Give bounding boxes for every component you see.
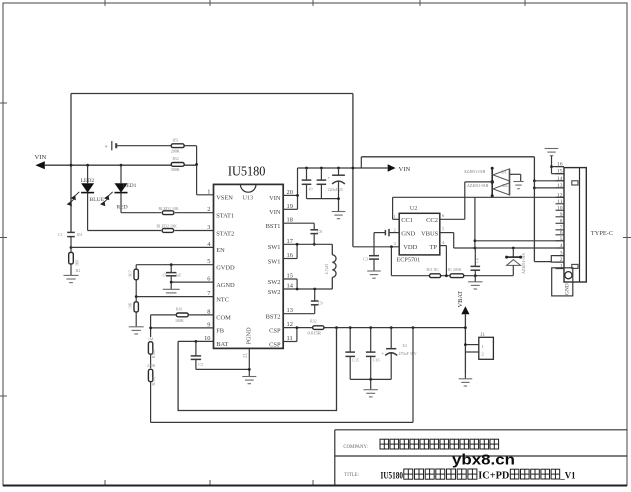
svg-text:11: 11 [557,199,563,205]
net flag VIN (left) [35,154,47,169]
svg-text:CSP: CSP [269,341,281,348]
wire C5 to PGND [196,368,249,370]
svg-text:CC2: CC2 [426,217,438,224]
wire BAT pin10 [178,340,213,342]
svg-text:4: 4 [442,240,445,245]
svg-text:VBAT: VBAT [457,291,464,308]
svg-text:VIN: VIN [35,154,47,161]
node E2 tap [390,326,393,329]
svg-text:R51: R51 [173,139,179,143]
company name 深圳市永阜康科技有限公司 [380,439,499,449]
frame zone ticks left [0,103,7,396]
ground (PGND) [242,377,256,384]
svg-text:_V1: _V1 [559,471,575,482]
title text IU5180 buck-boost charger [381,469,576,482]
svg-text:BAT: BAT [216,341,228,348]
wire VSEN pin1 [197,194,214,196]
svg-text:5: 5 [442,227,445,232]
svg-text:AZ4051-01B: AZ4051-01B [464,169,486,174]
wire join to gnd [370,379,372,389]
wire CSP cap join [350,378,391,381]
svg-text:C15: C15 [352,358,359,363]
IU5180 left pin names and numbers [204,188,235,348]
svg-text:+: + [327,175,330,180]
ground (EN RC) [64,275,79,282]
title block frame [3,430,627,486]
wire CC branch rail [475,240,564,242]
wire VIN rail left [45,164,197,166]
node VIN-loop junction [70,164,73,167]
svg-text:R32: R32 [310,319,317,324]
svg-text:VSEN: VSEN [216,195,233,202]
node C15 tap [349,326,352,329]
LED LED2 (BLUE) [67,165,105,230]
svg-text:CC1: CC1 [401,217,413,224]
LED LED1 (RED) [100,165,137,213]
wire pin13 link [534,187,564,189]
capacitor C15 [345,328,359,380]
wire CC1 route [393,197,400,219]
svg-text:GND: GND [565,283,571,295]
wire VIN top rail [361,156,534,158]
svg-text:RED: RED [117,205,128,211]
svg-text:300K: 300K [171,167,180,172]
svg-text:FB: FB [216,328,224,335]
TypeC pin stubs and numbers [556,162,565,270]
svg-text:21: 21 [244,353,249,359]
wire C4 gnd stub [474,276,476,282]
wire VBUS route [440,233,454,248]
wire STAT1 net RED [117,205,162,213]
svg-text:R1 200K: R1 200K [448,268,462,272]
IC U2 ECP5701 body [397,205,440,264]
capacitor C6 [163,265,182,290]
svg-text:R102: R102 [152,350,156,358]
svg-text:R103: R103 [152,377,156,385]
svg-text:R2: R2 [76,269,81,273]
svg-text:U2: U2 [410,205,418,212]
ground (C3) [367,271,381,278]
svg-text:COM: COM [216,315,231,322]
svg-text:4: 4 [560,243,563,249]
connector J1 [464,333,493,360]
svg-text:+: + [104,144,108,151]
svg-text:10K: 10K [129,302,133,309]
resistor R10 100K (COM) [175,308,188,323]
resistor R51 200K [171,139,184,154]
svg-text:5: 5 [560,236,563,242]
wire GVDD pin5 [136,264,213,266]
svg-text:TITLE:: TITLE: [344,473,359,478]
svg-text:ECP5701: ECP5701 [397,257,421,264]
capacitor C8 (BST1) [283,223,322,246]
svg-text:VBUS: VBUS [421,230,439,237]
capacitor E2 electrolytic 470uF/35V [381,328,416,380]
wire RLED2 to STAT2 [175,230,214,232]
wire C1 to EN node [70,237,72,248]
IU5180 pin 21 PGND label [244,327,253,358]
node loop junction [352,167,355,170]
svg-text:2: 2 [560,257,563,263]
node bottom-rail tap [412,326,415,329]
svg-text:C5: C5 [198,362,203,367]
svg-text:IU5180: IU5180 [381,471,404,482]
diode D3 AZ4051-016 [505,248,526,276]
IC U13 IU5180 body [214,164,284,349]
svg-text:240K: 240K [147,364,156,368]
svg-text:U13: U13 [243,195,254,202]
wire SW1 pins 17-16 [283,243,332,259]
wire D pair to gnd [510,174,521,181]
svg-text:LED1: LED1 [123,183,137,189]
wire SW2 pins 15-14 [283,279,332,290]
svg-text:C1: C1 [58,233,63,237]
wire CC1 rail [393,196,564,198]
svg-text:CSP: CSP [269,327,281,334]
ground (AGND) [163,289,180,296]
svg-text:1M: 1M [148,338,154,342]
resistor RLED1 10K [159,206,179,215]
node LED1 tap [120,164,123,167]
wire VDD rail [353,245,399,248]
inductor L1 4.7uH [324,244,336,289]
resistor R17 (GVDD-NTC) [129,265,139,297]
wire R2 to ground [71,264,80,275]
svg-text:BLUE: BLUE [90,197,105,203]
wire AGND pin6 [170,281,214,284]
wire TP route [440,246,447,276]
svg-text:6: 6 [442,213,445,218]
wire VIN jog [360,157,362,168]
wire resistor row [391,274,513,277]
wire R51 to node [185,145,197,147]
ground (C4) [468,282,482,289]
frame zone ticks top [105,0,525,6]
watermark ybx8.cn [452,453,515,469]
svg-text:2: 2 [207,206,210,213]
ground (NTC) [129,327,144,334]
capacitor C5 [191,341,203,369]
svg-text:BST1: BST1 [266,223,281,230]
wire CSP rail [324,327,465,329]
svg-text:STAT1: STAT1 [216,213,234,220]
svg-text:100K: 100K [175,318,184,323]
svg-text:C9: C9 [318,301,323,306]
resistor RLED2 10K [157,223,177,232]
wire EN pin4 [71,246,214,248]
svg-text:8: 8 [560,218,563,224]
svg-text:PGND: PGND [246,327,253,345]
svg-text:4.7uH: 4.7uH [324,264,329,274]
node cap E1 tap [337,167,340,170]
resistor R103 [147,364,156,386]
svg-text:+: + [381,351,384,356]
wire CSP pins 12-11 [283,326,312,341]
svg-text:C16: C16 [373,358,380,363]
wire R102-R103 [150,354,152,368]
svg-text:C3: C3 [363,256,368,261]
wire gnd to pins 16-15 [550,156,564,174]
wire STAT2 from LED2 [88,230,162,232]
svg-text:200K: 200K [171,149,180,154]
svg-text:104: 104 [77,233,83,237]
capacitor C3 [363,256,379,271]
wire RLED1 to STAT1 [175,212,214,214]
svg-text:SW2: SW2 [268,289,281,296]
svg-text:14: 14 [557,176,563,182]
ground (CSP caps) [364,390,378,397]
svg-text:1: 1 [394,214,397,219]
node C5 tap [195,340,198,343]
wire bottom sense rail [151,421,413,423]
U2 pin names [394,213,445,251]
node cap C11 tap [320,167,323,170]
wire R103 to rail [150,382,152,423]
svg-text:0.015R: 0.015R [308,331,322,336]
svg-text:220uF/25: 220uF/25 [328,187,343,192]
resistor R32 0.015R [308,319,325,336]
node C6 tap [170,263,173,266]
svg-text:AZ4051-01B: AZ4051-01B [467,183,489,188]
svg-text:15: 15 [557,169,563,175]
svg-text:SW1: SW1 [268,258,281,265]
wire FB pin9 [149,327,213,330]
resistor R1 200K [448,268,464,277]
svg-text:16: 16 [557,162,563,168]
svg-text:C8: C8 [318,229,323,234]
wire loop right (VIN net vertical) [352,94,354,247]
resistor R2 10K (EN-GND) [69,248,79,267]
svg-text:2: 2 [394,227,397,232]
svg-text:10: 10 [557,205,563,211]
wire bus to pins 2-3 [534,255,564,263]
capacitor C16 [366,328,380,380]
capacitor C9 (BST2) [311,288,323,314]
svg-text:TYPE-C: TYPE-C [591,230,613,237]
capacitor C1 (VIN-EN) [58,232,82,237]
svg-text:LED2: LED2 [81,178,95,184]
svg-text:AGND: AGND [216,282,235,289]
svg-text:R11 NC: R11 NC [427,268,440,272]
wire CC branch vertical [474,197,477,248]
svg-text:GND: GND [401,230,415,237]
connector J2 TYPE-C body [564,168,613,282]
svg-text:ybx8.cn: ybx8.cn [452,453,515,469]
node EN junction [70,246,73,249]
svg-text:12: 12 [557,192,563,198]
svg-text:IC+PD: IC+PD [478,471,509,482]
wire rail drop [412,328,414,423]
svg-text:NTC: NTC [216,296,229,303]
svg-text:10: 10 [309,187,313,192]
svg-text:VIN: VIN [399,166,411,173]
wire NTC pin7 [135,295,214,298]
wire COM to FB divider [151,315,176,337]
svg-text:D2: D2 [502,183,507,188]
svg-text:EN: EN [216,247,225,254]
capacitor C10 [302,168,313,199]
svg-text:3: 3 [394,241,397,246]
resistor R102 [148,338,156,359]
wire loop top [71,93,353,95]
svg-text:RLED2 10K: RLED2 10K [157,223,177,228]
svg-text:C6: C6 [163,274,168,278]
svg-text:13: 13 [557,183,563,189]
ground (VIN caps) [332,212,346,219]
svg-text:VDD: VDD [403,244,417,251]
node divider-VIN junction [195,163,198,166]
capacitor C4 (VBUS) [471,248,481,276]
frame zone tick right [623,237,631,239]
title block COMPANY label [343,445,367,450]
title block TITLE label [344,473,359,478]
capacitor C11 [317,168,327,199]
TypeC shell GND box [552,268,573,296]
resistor NTC thermistor [129,297,139,327]
node C16 tap [369,326,372,329]
svg-text:1: 1 [560,264,563,270]
svg-text:J1: J1 [481,333,486,338]
node R32 out [335,326,338,329]
svg-text:RLED1 10K: RLED1 10K [159,206,179,211]
net flag VIN (right) [388,164,411,173]
svg-text:TP: TP [429,244,437,251]
svg-text:GVDD: GVDD [216,265,235,272]
wire pin14 link [534,180,564,182]
svg-text:C4: C4 [475,258,480,263]
wire COM pin8 [189,314,214,316]
svg-text:E2: E2 [403,343,407,348]
svg-text:1: 1 [207,188,210,195]
node cap C10 tap [305,167,308,170]
wire VIN pins 20-19 [283,168,299,209]
svg-text:SW2: SW2 [268,279,281,286]
battery B1 (+) [104,141,171,151]
wire CC2 to D2 [440,182,492,219]
svg-text:D1: D1 [501,170,506,175]
wire VDD drop [390,247,392,276]
wire BST2 pin13 [283,313,315,315]
wire VBAT to gnd [464,374,466,378]
svg-text:R52: R52 [173,157,179,161]
ground (TypeC top) [545,149,559,156]
capacitor E1 electrolytic 220uF/25V [327,168,344,211]
svg-text:VIN: VIN [269,209,281,216]
ground (ESD) [513,182,523,189]
svg-text:IU5180: IU5180 [228,164,266,179]
svg-text:1uF: 1uF [176,274,182,278]
node LED2 tap [86,164,89,167]
svg-text:R10: R10 [176,308,182,312]
frame zone ticks bottom [105,480,313,486]
wire VIN rail right [298,167,388,169]
wire VSEN divider vertical [196,146,198,195]
svg-text:VIN: VIN [269,195,281,202]
wire PGND pin21 [248,348,251,376]
svg-text:STAT2: STAT2 [216,230,234,237]
wire cap join [307,197,340,200]
svg-text:3: 3 [560,251,563,257]
svg-text:R17: R17 [129,270,133,276]
svg-text:10K: 10K [75,260,79,267]
wire U2 gnd drop [373,233,375,256]
svg-text:AZ4051-016: AZ4051-016 [521,253,526,274]
IU5180 right pin names and numbers [266,189,294,348]
svg-text:2: 2 [482,351,484,356]
svg-text:9: 9 [560,212,563,218]
ground (VBAT) [459,379,473,386]
svg-text:SW1: SW1 [268,244,281,251]
wire BAT loop [178,328,336,411]
svg-text:470uF 35V: 470uF 35V [399,351,417,356]
resistor R11 NC [427,268,441,277]
wire loop left upper [70,94,72,233]
svg-text:BST2: BST2 [266,314,281,321]
diode pair D1 D2 AZ4051-01B [464,167,510,198]
svg-text:COMPANY:: COMPANY: [343,445,367,450]
net flag VBAT [457,291,469,375]
resistor R52 300K [171,157,184,172]
wire VBUS bus vertical [533,157,536,262]
capacitor C7 (U2 GND) [374,229,399,236]
wire VBUS rail [454,247,564,250]
svg-text:1: 1 [482,344,484,349]
svg-text:3: 3 [207,224,210,231]
